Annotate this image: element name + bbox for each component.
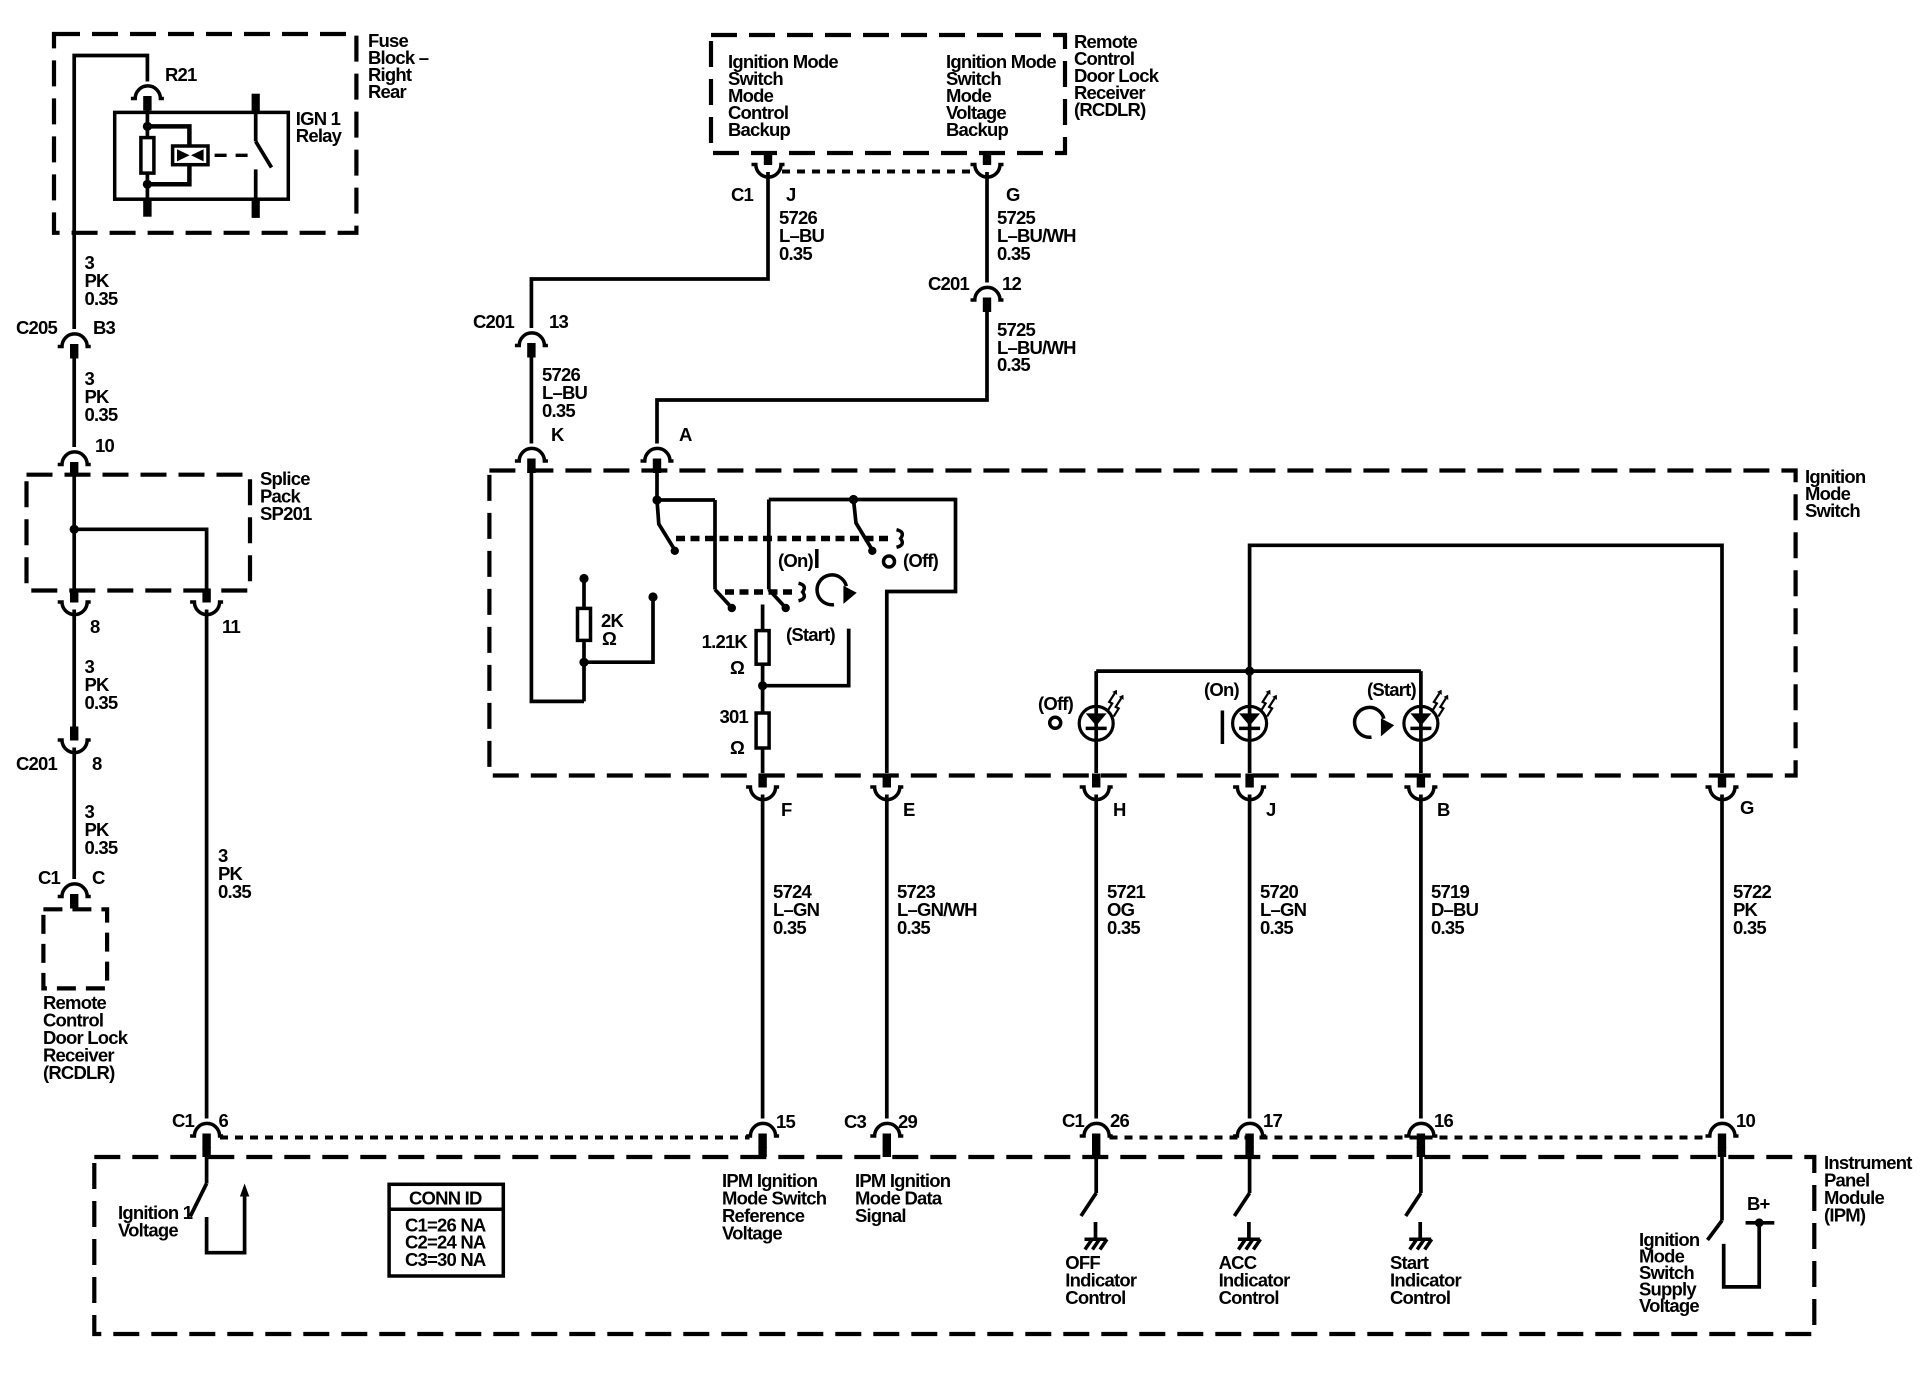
- svg-text:C201: C201: [16, 753, 58, 774]
- ignition mode switch supply voltage wire: [1720, 1157, 1724, 1221]
- wire On pole down: [767, 500, 771, 590]
- svg-text:16: 16: [1434, 1110, 1453, 1131]
- wiper tip: [728, 604, 736, 612]
- RCDLR top box: [711, 35, 1065, 153]
- svg-text:1.21K: 1.21K: [702, 631, 749, 652]
- IPM pin 29 label: [855, 1170, 951, 1226]
- relay label: [296, 108, 343, 146]
- detent spring row 2: [799, 583, 805, 601]
- node: off wiper pivot: [849, 495, 858, 504]
- node: coil top junction: [143, 122, 152, 131]
- wire J to 17: [1248, 795, 1252, 1119]
- connector C201 12 labels: [928, 273, 1022, 294]
- svg-text:Relay: Relay: [296, 125, 343, 146]
- detent spring row 1: [897, 530, 903, 548]
- svg-text:(Off): (Off): [1038, 693, 1074, 714]
- connector 11: [190, 589, 223, 615]
- svg-text:Ω: Ω: [730, 737, 745, 758]
- supply contact block top line: [769, 498, 956, 502]
- connector C1 G: [971, 151, 1004, 177]
- node: 2K top contact: [579, 574, 588, 583]
- connector A (switch): [641, 448, 674, 473]
- svg-text:B: B: [1437, 799, 1450, 820]
- svg-text:0.35: 0.35: [773, 917, 806, 938]
- wire 2K top: [582, 579, 586, 609]
- IGN 1 relay box: [115, 112, 289, 199]
- svg-text:11: 11: [222, 616, 240, 637]
- svg-text:(IPM): (IPM): [1824, 1205, 1866, 1226]
- LED off indicator: [1079, 690, 1123, 741]
- relay mechanical link: [215, 154, 252, 157]
- svg-text:0.35: 0.35: [1260, 917, 1293, 938]
- svg-text:0.35: 0.35: [897, 917, 930, 938]
- wire C201-8 down to RCDLR: [72, 748, 76, 880]
- ACC indicator control switch wire: [1248, 1157, 1252, 1193]
- ground (ACC indicator): [1238, 1222, 1261, 1250]
- relay switch blade: [256, 141, 272, 167]
- svg-text:(Off): (Off): [903, 550, 939, 571]
- off position contact circle: [884, 556, 895, 567]
- fuse block label: [368, 30, 429, 102]
- svg-text:Control: Control: [1390, 1287, 1450, 1308]
- label (Start) with rotary arrow: [1355, 679, 1417, 737]
- RCDLR lower box: [43, 909, 107, 988]
- resistor 1.21K: [756, 631, 769, 665]
- wire label 5725 L-BU/WH 0.35 (lower): [997, 319, 1076, 375]
- svg-text:F: F: [781, 799, 792, 820]
- relay coil lower pin: [143, 199, 151, 217]
- wire 5725 from G to C201-12: [985, 172, 989, 283]
- supply wire from G leg across top: [1250, 545, 1722, 773]
- svg-text:G: G: [1740, 797, 1754, 818]
- svg-text:6: 6: [219, 1110, 229, 1131]
- svg-text:J: J: [786, 184, 796, 205]
- svg-text:R21: R21: [165, 64, 197, 85]
- wiper A tip: [671, 547, 679, 555]
- svg-text:10: 10: [1736, 1110, 1755, 1131]
- node: coil bottom junction: [143, 180, 152, 189]
- connector 15: [746, 1123, 779, 1148]
- relay switch bottom pin: [252, 199, 260, 218]
- svg-text:Backup: Backup: [946, 119, 1009, 140]
- svg-text:15: 15: [776, 1111, 795, 1132]
- wire off LED leg: [1094, 671, 1098, 773]
- wire label 5719 D-BU 0.35: [1431, 881, 1479, 938]
- svg-text:26: 26: [1110, 1110, 1129, 1131]
- connector G (switch): [1706, 774, 1739, 800]
- svg-text:(Start): (Start): [1367, 679, 1417, 700]
- wire K to 2K resistor bottom: [531, 472, 584, 701]
- wire H to 26: [1094, 795, 1098, 1119]
- svg-text:Ω: Ω: [730, 657, 745, 678]
- ignition 1 switch blade: [190, 1184, 206, 1217]
- wire label 3 PK 0.35 (relay to C205): [85, 252, 118, 309]
- node: bus junction: [1245, 667, 1254, 676]
- wire wiper to 1.21K: [761, 605, 765, 631]
- wire label 5720 L-GN 0.35: [1260, 881, 1307, 938]
- wire label 3 PK 0.35 (wire 11): [218, 845, 251, 902]
- Start indicator control label: [1390, 1252, 1462, 1308]
- wire label 3 PK 0.35 (8 to C201): [85, 656, 118, 713]
- wire to start contact: [763, 684, 849, 688]
- IPM box: [94, 1157, 1814, 1334]
- svg-text:0.35: 0.35: [1431, 917, 1464, 938]
- connector C3 29 labels: [844, 1111, 918, 1132]
- mechanical link row 1: [676, 536, 891, 541]
- RCDLR output label: mode control backup: [728, 51, 838, 140]
- relay coil feed wire: [146, 109, 150, 138]
- svg-text:C201: C201: [928, 273, 970, 294]
- switch wiper arm (off): [854, 500, 873, 550]
- svg-text:C: C: [92, 867, 105, 888]
- resistor 301 label: [720, 706, 749, 758]
- wire label 5726 L-BU 0.35 (lower): [542, 364, 588, 421]
- wire label 5721 OG 0.35: [1107, 881, 1145, 938]
- IPM connector joint line left (dotted): [220, 1136, 750, 1140]
- connector 8: [58, 589, 91, 615]
- ground (OFF indicator): [1085, 1222, 1108, 1250]
- wire inside splice pack: [72, 475, 76, 591]
- wire label 5726 L-BU 0.35 (upper): [779, 207, 825, 264]
- wire 11 down to IPM connector 6: [205, 610, 209, 1119]
- ignition 1 voltage label: [118, 1202, 193, 1241]
- LED start indicator: [1404, 690, 1448, 741]
- svg-text:C1: C1: [1062, 1110, 1085, 1131]
- svg-text:0.35: 0.35: [1733, 917, 1766, 938]
- svg-text:Control: Control: [1219, 1287, 1279, 1308]
- wire 2K bottom to right leg: [584, 597, 653, 662]
- svg-text:13: 13: [549, 311, 568, 332]
- svg-text:301: 301: [720, 706, 749, 727]
- connector C1 C: [58, 884, 91, 909]
- svg-text:0.35: 0.35: [542, 400, 575, 421]
- Start indicator control switch wire: [1419, 1157, 1423, 1193]
- svg-text:Signal: Signal: [855, 1205, 906, 1226]
- node: 2K bottom junction: [579, 658, 588, 667]
- wire label 5725 L-BU/WH 0.35 (upper): [997, 207, 1076, 264]
- wire 2K bottom: [582, 640, 586, 701]
- wire on LED leg: [1248, 671, 1252, 773]
- Start switch blade: [1406, 1193, 1421, 1216]
- svg-text:0.35: 0.35: [997, 354, 1030, 375]
- OFF switch blade: [1081, 1193, 1096, 1216]
- connector C1 joint line (dotted): [782, 170, 973, 174]
- connector C1 26 labels: [1062, 1110, 1130, 1131]
- relay coil resistor: [141, 138, 154, 174]
- switch wiper arm (start row left): [715, 590, 731, 608]
- label (On) with bar: [778, 549, 817, 571]
- supply voltage bracket to B+: [1724, 1225, 1760, 1287]
- wire 301 to F: [761, 748, 765, 773]
- B+ junction dot: [1755, 1218, 1764, 1227]
- svg-text:Voltage: Voltage: [722, 1223, 782, 1244]
- wire label 5723 L-GN/WH 0.35: [897, 881, 977, 938]
- svg-text:G: G: [1006, 184, 1020, 205]
- wire from relay feed to left column: [74, 56, 147, 330]
- wire B to 16: [1419, 795, 1423, 1119]
- svg-text:29: 29: [898, 1111, 917, 1132]
- node: start contact junction: [758, 681, 767, 690]
- connector 10 (IPM): [1706, 1123, 1739, 1148]
- connector C1 6: [190, 1123, 223, 1148]
- wire second pole down: [713, 500, 717, 590]
- LED bus: [1096, 669, 1421, 673]
- svg-text:0.35: 0.35: [85, 692, 118, 713]
- B+ bar: [1746, 1221, 1775, 1225]
- wire C205 to splice pack: [72, 358, 76, 448]
- svg-text:(Start): (Start): [786, 624, 836, 645]
- connector B: [1404, 774, 1437, 800]
- resistor 2K label: [601, 610, 624, 649]
- connector C3 29: [870, 1123, 903, 1148]
- wire C201-12 down and over to A: [657, 312, 987, 444]
- IPM label: [1824, 1152, 1912, 1226]
- connector C201 pin 12: [971, 287, 1004, 312]
- svg-text:0.35: 0.35: [85, 837, 118, 858]
- svg-text:0.35: 0.35: [779, 243, 812, 264]
- svg-text:17: 17: [1263, 1110, 1282, 1131]
- connector C1 J: [752, 151, 785, 177]
- start contact post: [847, 631, 851, 686]
- splice pack label: [260, 468, 312, 524]
- wire start LED leg: [1419, 671, 1423, 773]
- wire C201-13 down to K: [530, 357, 534, 444]
- svg-text:Rear: Rear: [368, 81, 407, 102]
- connector C201 pin 8: [58, 727, 91, 753]
- connector 10 (splice pack): [58, 452, 91, 477]
- connector 17: [1233, 1123, 1266, 1148]
- IPM pin 15 label: [722, 1170, 827, 1244]
- wire branch to relay winding bottom: [147, 163, 189, 184]
- wire label 5724 L-GN 0.35: [773, 881, 820, 938]
- connector H: [1080, 774, 1113, 800]
- label (Off) with contact circle: [1038, 693, 1074, 728]
- svg-text:Ω: Ω: [602, 628, 617, 649]
- svg-text:C1: C1: [731, 184, 754, 205]
- connector C201 13 labels: [473, 311, 569, 332]
- wire label 5722 PK 0.35: [1733, 881, 1771, 938]
- connector C1 C labels: [38, 867, 105, 888]
- svg-text:8: 8: [92, 753, 102, 774]
- svg-text:0.35: 0.35: [85, 404, 118, 425]
- svg-text:J: J: [1266, 799, 1276, 820]
- svg-text:H: H: [1113, 799, 1126, 820]
- wire E to 29: [885, 795, 889, 1119]
- svg-text:E: E: [903, 799, 915, 820]
- svg-text:A: A: [679, 424, 692, 445]
- connector C1 6 labels: [172, 1110, 229, 1131]
- svg-text:0.35: 0.35: [997, 243, 1030, 264]
- wire F to 15: [761, 795, 765, 1119]
- wire label 3 PK 0.35 (C205 to SP201): [85, 368, 118, 425]
- OFF indicator control switch wire: [1094, 1157, 1098, 1193]
- svg-text:C1: C1: [172, 1110, 195, 1131]
- connector 16: [1404, 1123, 1437, 1148]
- ignition 1 arrowhead: [240, 1184, 249, 1197]
- connector C205 B3: [58, 334, 91, 359]
- wire splice branch to terminal 11: [74, 529, 206, 590]
- svg-text:Switch: Switch: [1805, 500, 1860, 521]
- svg-text:C205: C205: [16, 317, 58, 338]
- connector F: [746, 774, 779, 800]
- node: splice junction: [70, 525, 79, 534]
- svg-text:Voltage: Voltage: [1639, 1295, 1699, 1316]
- wire branch to relay winding top: [147, 126, 189, 147]
- wire 8 down to C201: [72, 610, 76, 727]
- resistor 2K: [578, 608, 591, 640]
- ignition 1 voltage switch wire: [205, 1157, 209, 1184]
- svg-text:C201: C201: [473, 311, 515, 332]
- relay winding box with bowtie: [173, 146, 208, 165]
- svg-text:K: K: [551, 424, 565, 445]
- svg-text:(On): (On): [778, 550, 813, 571]
- svg-text:C3=30 NA: C3=30 NA: [405, 1249, 486, 1270]
- CONN ID table: [389, 1184, 503, 1276]
- wire label 3 PK 0.35 (C201 to RCDLR): [85, 801, 118, 858]
- connector E: [870, 774, 903, 800]
- svg-text:CONN ID: CONN ID: [409, 1188, 482, 1209]
- connector C205 B3 labels: [16, 317, 116, 338]
- fuse block box: [54, 34, 356, 233]
- connector K (switch): [515, 448, 548, 473]
- svg-text:C1: C1: [38, 867, 61, 888]
- resistor 301: [756, 713, 769, 748]
- wire G to 10: [1720, 795, 1724, 1119]
- svg-text:0.35: 0.35: [218, 881, 251, 902]
- node: wiper A: [652, 495, 661, 504]
- mechanical link row 2: [725, 589, 792, 594]
- svg-text:Voltage: Voltage: [118, 1220, 178, 1241]
- wire 5726 from J to C201-13: [531, 172, 768, 328]
- wiper off tip: [868, 547, 876, 555]
- connector C201 pin 13: [515, 333, 548, 358]
- RCDLR box name: [1074, 31, 1160, 120]
- ignition 1 switch bracket with arrow: [207, 1194, 245, 1253]
- ignition mode switch box: [489, 471, 1795, 776]
- svg-text:C3: C3: [844, 1111, 867, 1132]
- switch wiper arm from A: [657, 500, 675, 550]
- svg-text:12: 12: [1002, 273, 1021, 294]
- label (On) with bar: [1204, 679, 1239, 744]
- ground (Start indicator): [1409, 1222, 1432, 1250]
- svg-text:0.35: 0.35: [1107, 917, 1140, 938]
- resistor 1.21K label: [702, 631, 749, 678]
- wire 1.21K bottom: [761, 664, 765, 713]
- svg-text:(RCDLR): (RCDLR): [43, 1062, 115, 1083]
- wiper tip: [782, 604, 790, 612]
- rotary start arrow (switch): [817, 575, 857, 605]
- svg-text:(On): (On): [1204, 679, 1239, 700]
- svg-text:Backup: Backup: [728, 119, 791, 140]
- IPM connector joint line right (dotted): [1110, 1136, 1710, 1140]
- wire A to wiper node: [655, 472, 659, 500]
- ACC switch blade: [1234, 1193, 1249, 1216]
- svg-text:10: 10: [95, 435, 114, 456]
- LED on indicator: [1233, 690, 1277, 741]
- svg-text:SP201: SP201: [260, 503, 312, 524]
- RCDLR lower label: [43, 992, 129, 1083]
- svg-text:8: 8: [90, 616, 100, 637]
- connector C201 8 labels: [16, 753, 102, 774]
- svg-text:B+: B+: [1747, 1193, 1771, 1214]
- ignition mode switch supply voltage label: [1639, 1229, 1700, 1316]
- svg-text:Control: Control: [1065, 1287, 1125, 1308]
- RCDLR output label: mode voltage backup: [946, 51, 1056, 140]
- ignition mode switch label: [1805, 466, 1866, 521]
- connector R21: [131, 86, 164, 111]
- svg-text:(RCDLR): (RCDLR): [1074, 99, 1146, 120]
- connector J (switch): [1233, 774, 1266, 800]
- splice pack box: [27, 475, 251, 591]
- relay coil lower wire: [146, 173, 150, 199]
- supply block right edge step to E: [887, 498, 956, 773]
- svg-text:B3: B3: [93, 317, 116, 338]
- wire A node to second pole: [657, 498, 715, 502]
- relay switch top pin: [252, 94, 260, 113]
- relay switch bottom wire: [254, 169, 258, 199]
- supply voltage switch blade: [1708, 1221, 1723, 1241]
- svg-text:0.35: 0.35: [85, 288, 118, 309]
- connector C1 26: [1080, 1123, 1113, 1148]
- switch wiper arm (start row right): [769, 590, 785, 608]
- node: right leg contact: [648, 592, 657, 601]
- relay switch top wire: [254, 112, 258, 141]
- ACC indicator control label: [1219, 1252, 1291, 1308]
- OFF indicator control label: [1065, 1252, 1137, 1308]
